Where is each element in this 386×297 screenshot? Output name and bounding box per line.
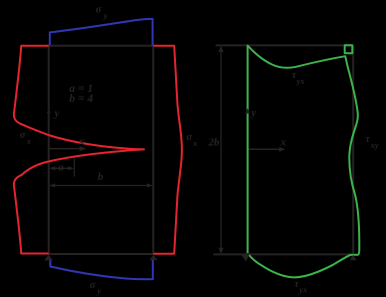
svg-text:x: x — [26, 136, 32, 146]
svg-text:y: y — [249, 107, 256, 119]
svg-text:yx: yx — [296, 76, 306, 86]
svg-text:σ: σ — [20, 130, 26, 141]
svg-text:σ: σ — [96, 5, 102, 16]
svg-text:yx: yx — [298, 285, 308, 295]
svg-text:y: y — [53, 107, 60, 119]
svg-text:σ: σ — [186, 132, 192, 143]
svg-text:σ: σ — [90, 280, 96, 291]
svg-text:a: a — [58, 162, 64, 174]
svg-text:2b: 2b — [207, 136, 220, 148]
svg-text:b: b — [98, 171, 104, 183]
svg-text:y: y — [96, 286, 101, 296]
svg-text:x: x — [78, 135, 85, 147]
svg-text:y: y — [103, 11, 108, 21]
svg-text:x: x — [192, 138, 198, 148]
svg-text:xy: xy — [370, 140, 379, 150]
svg-text:x: x — [280, 137, 287, 149]
svg-text:b = 4: b = 4 — [69, 93, 93, 105]
